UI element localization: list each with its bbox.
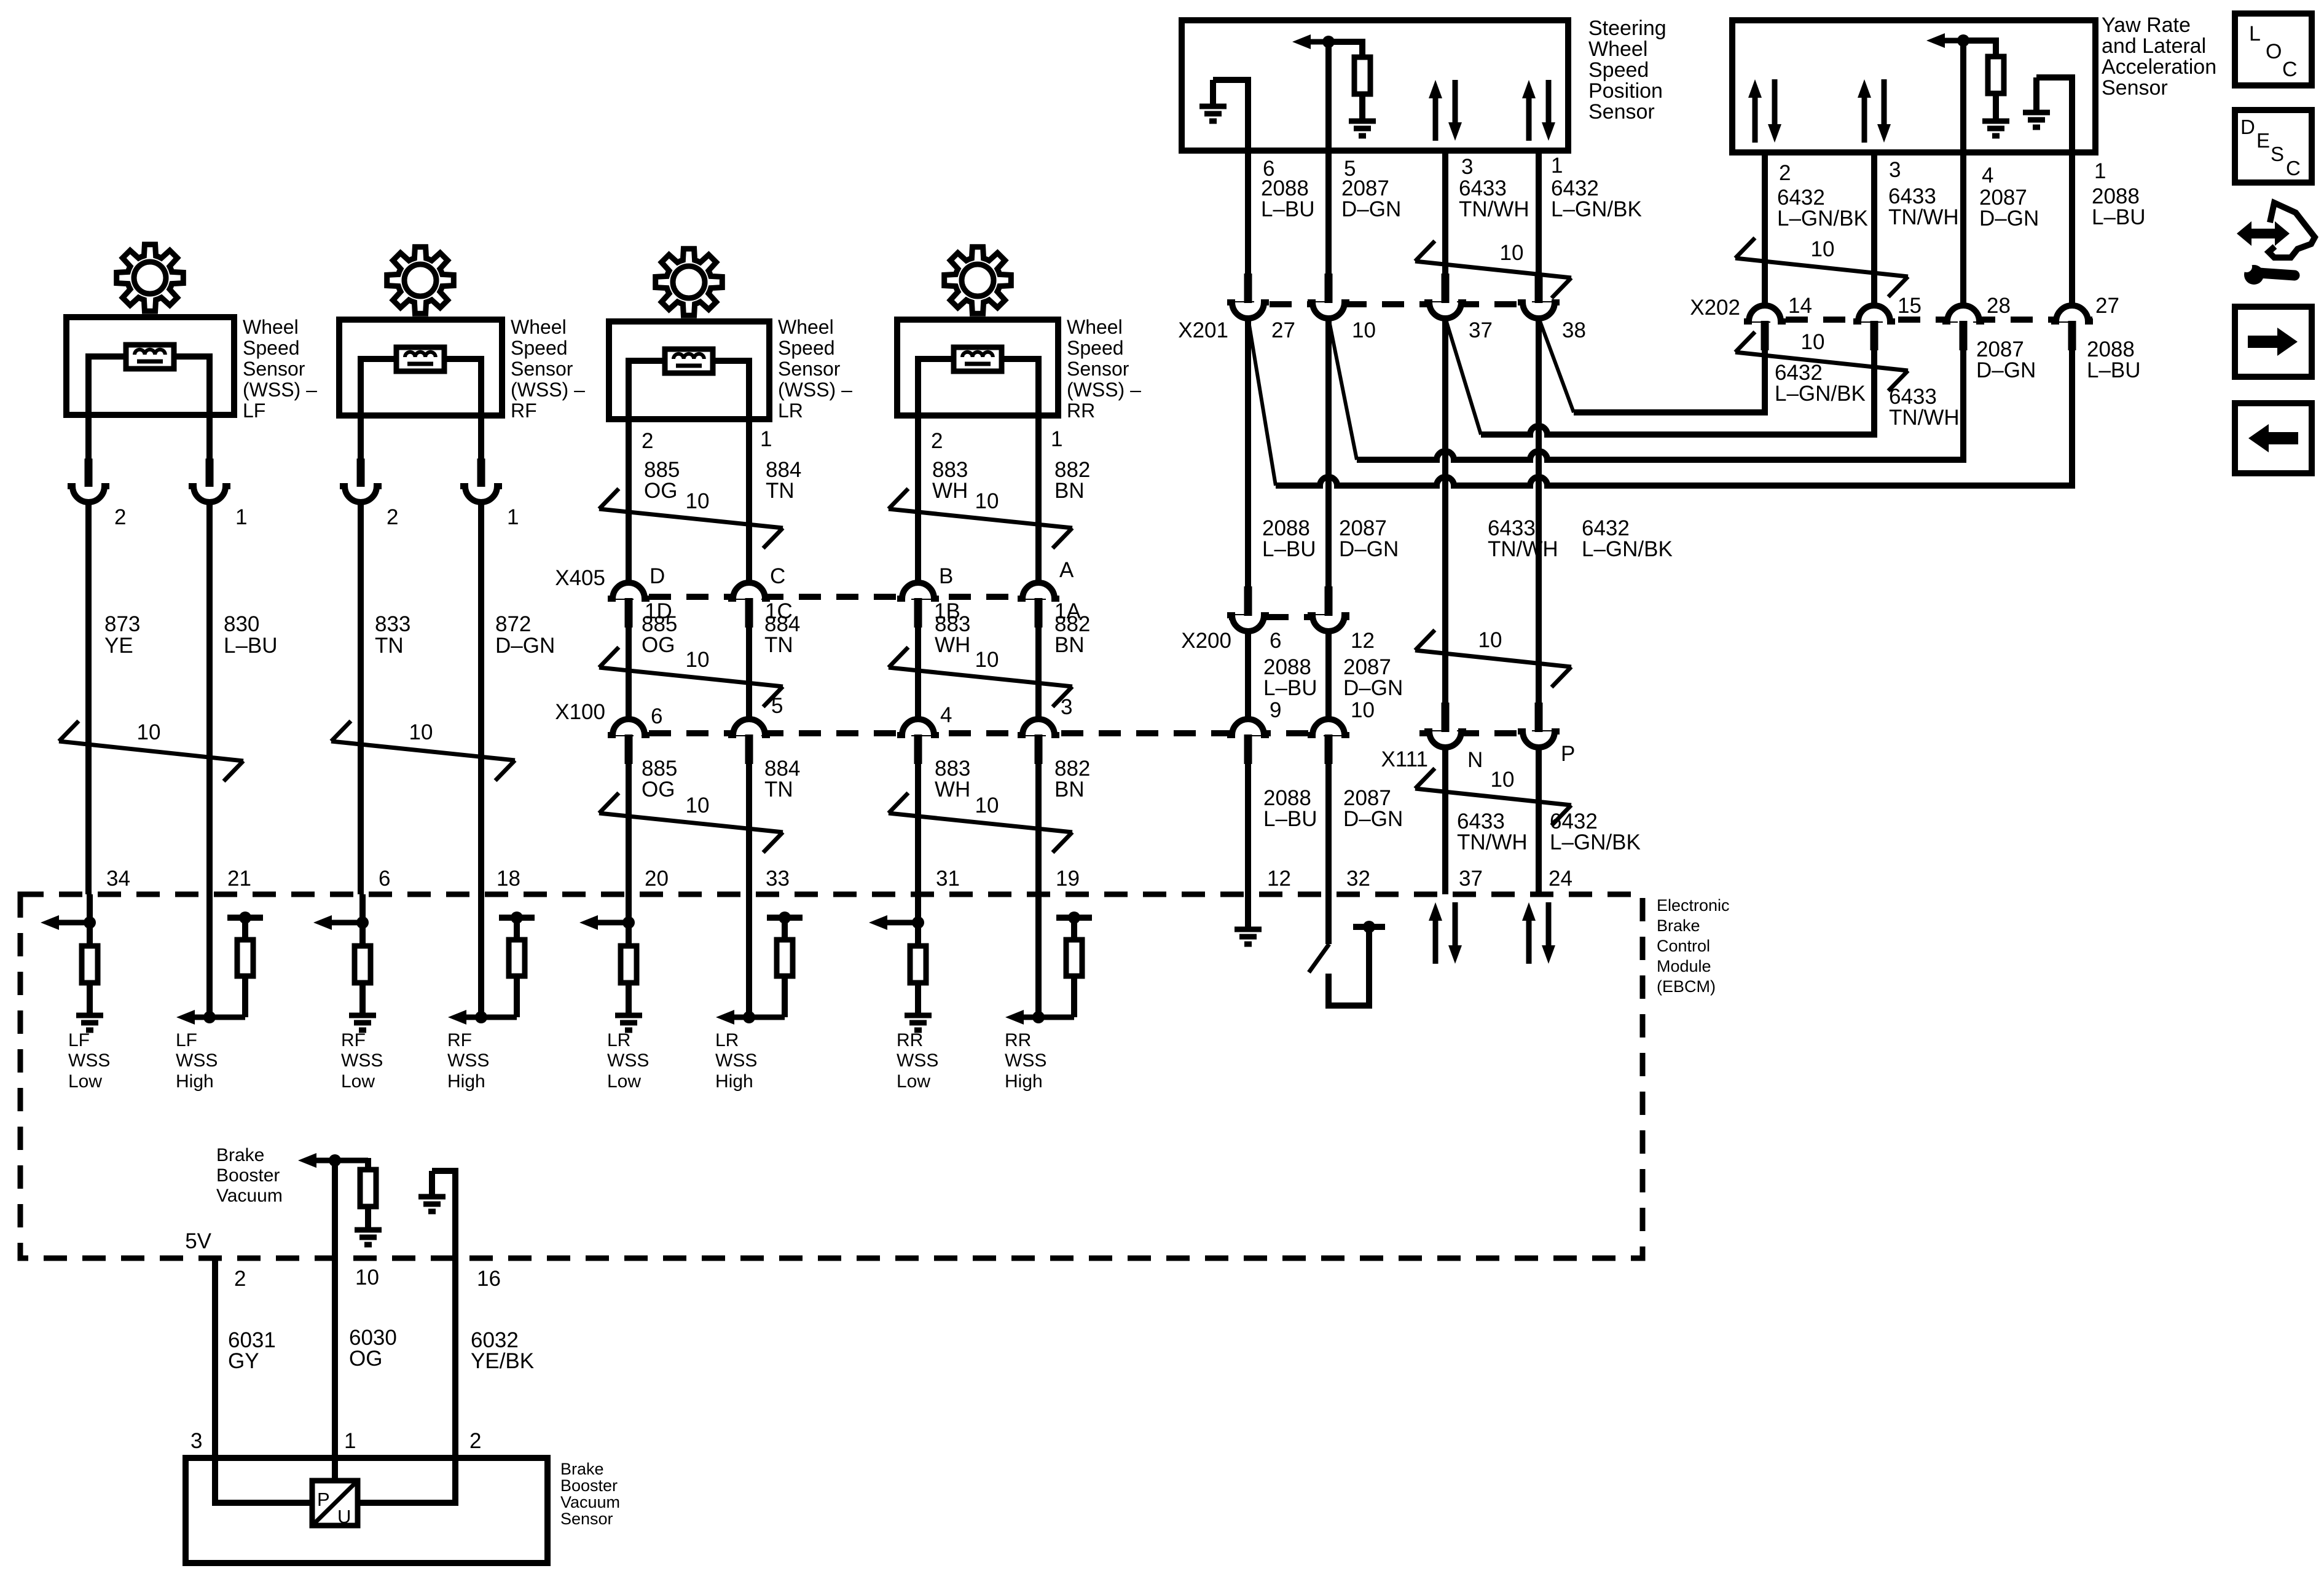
ground at EBCM pin 12: [1245, 894, 1251, 928]
svg-text:TN: TN: [764, 633, 793, 657]
connector X201 cavity 37: [1424, 302, 1466, 318]
svg-text:3: 3: [1889, 158, 1901, 182]
junction dot RF low: [356, 916, 369, 929]
wire 6432 L-GN/BK yaw pin 2 to X202: [1762, 152, 1768, 306]
wire RR low internal: [915, 894, 921, 946]
wheel speed sensor box LF: [66, 317, 234, 415]
svg-text:833: 833: [375, 612, 410, 636]
svg-text:10: 10: [1491, 768, 1515, 792]
svg-text:10: 10: [686, 489, 710, 513]
svg-text:WH: WH: [935, 778, 970, 801]
navigation arrows and wrench icon: [2237, 221, 2290, 246]
svg-text:BN: BN: [1054, 778, 1085, 801]
quadrature arrows B steering sensor: [1526, 96, 1532, 141]
svg-text:6: 6: [1270, 629, 1281, 653]
wire crossover X201-27 to X202-27 diagonal: [1248, 318, 1276, 486]
brake booster vacuum input arrow: [313, 1158, 368, 1164]
wire 885 OG X100 to EBCM pin 20: [626, 764, 632, 894]
LOC legend box: [2235, 14, 2312, 85]
connector row X111 dashed line: [1419, 730, 1564, 736]
wheel speed sensor box LR: [609, 321, 769, 419]
svg-text:BN: BN: [1054, 479, 1085, 503]
internal wiring RF sensor: [361, 359, 396, 415]
junction dot LR low: [622, 916, 635, 929]
svg-text:C: C: [2282, 58, 2298, 81]
twisted pair symbol LR wires above X100: [599, 667, 783, 687]
svg-text:WSS: WSS: [715, 1050, 757, 1071]
wire 2088 L-BU X201 to X200: [1245, 318, 1251, 593]
wire 6030 OG EBCM pin 10 to sensor pin 1: [332, 1258, 338, 1458]
inline connector RF pin 2: [340, 486, 382, 502]
svg-text:Position: Position: [1588, 79, 1663, 103]
svg-text:27: 27: [1271, 318, 1295, 342]
wire 830 L-BU (LF WSS high) to EBCM pin 21: [206, 500, 213, 894]
svg-text:LR: LR: [715, 1030, 739, 1050]
pull-up resistor LR high: [782, 976, 788, 1017]
svg-text:OG: OG: [642, 778, 675, 801]
svg-text:TN/WH: TN/WH: [1457, 830, 1528, 854]
quadrature arrows A steering sensor: [1433, 96, 1439, 141]
svg-text:2: 2: [642, 429, 653, 453]
svg-text:15: 15: [1898, 294, 1922, 318]
svg-text:10: 10: [1801, 330, 1825, 354]
junction dot RR low: [912, 916, 924, 929]
connector X201 cavity 27: [1227, 302, 1269, 318]
connector X202 cavity 14: [1744, 305, 1786, 321]
connector X202 cavity 15: [1853, 305, 1895, 321]
gear icon RR wheel: [944, 247, 1011, 314]
wire 872 D-GN (RF WSS high) to EBCM pin 18: [478, 500, 484, 894]
junction dot RR high: [1032, 1011, 1045, 1023]
svg-text:(WSS) –: (WSS) –: [778, 379, 852, 401]
svg-text:and Lateral: and Lateral: [2102, 34, 2206, 58]
gear icon LF wheel: [117, 245, 184, 312]
svg-text:4: 4: [940, 703, 952, 727]
svg-text:10: 10: [686, 648, 710, 672]
wire 882 BN X405 to X100: [1035, 628, 1042, 721]
resistor inside yaw sensor: [1963, 41, 1996, 57]
svg-text:C: C: [2286, 157, 2301, 179]
internal wiring LF sensor: [88, 356, 126, 415]
svg-text:LF: LF: [243, 400, 265, 422]
svg-text:TN/WH: TN/WH: [1488, 537, 1558, 561]
svg-text:RR: RR: [1067, 400, 1095, 422]
svg-text:Booster: Booster: [560, 1476, 618, 1495]
svg-text:10: 10: [1352, 318, 1376, 342]
svg-text:High: High: [447, 1071, 485, 1092]
WSS element symbol LF: [126, 345, 174, 369]
connector row X201 dashed line: [1232, 301, 1558, 307]
svg-text:X111: X111: [1381, 747, 1428, 771]
svg-text:A: A: [1059, 558, 1074, 582]
svg-text:Brake: Brake: [560, 1460, 604, 1478]
svg-text:RF: RF: [447, 1030, 472, 1050]
svg-text:WSS: WSS: [1005, 1050, 1046, 1071]
svg-text:6: 6: [651, 704, 662, 728]
svg-text:D–GN: D–GN: [1976, 358, 2036, 382]
svg-text:LR: LR: [778, 400, 803, 422]
switch at EBCM pin 32: [1325, 894, 1332, 944]
resistor inside steering sensor: [1329, 42, 1362, 57]
wire 883 WH X405 to X100: [915, 628, 921, 721]
svg-text:12: 12: [1351, 629, 1375, 653]
wire X202-28 drop to run: [1953, 344, 1963, 460]
svg-text:Speed: Speed: [1067, 337, 1124, 359]
svg-text:Sensor: Sensor: [1588, 100, 1655, 124]
svg-text:WSS: WSS: [607, 1050, 649, 1071]
svg-text:10: 10: [1478, 628, 1502, 652]
connector row X100 dashed line: [611, 730, 1359, 736]
svg-text:P: P: [317, 1489, 330, 1510]
internal wiring LR sensor: [629, 361, 665, 419]
LR low input arrow: [594, 920, 629, 926]
brake booster vacuum sensor box: [186, 1458, 548, 1563]
twisted pair symbol below X111: [1415, 789, 1571, 805]
wire X200 6 to 9: [1245, 630, 1251, 721]
svg-text:TN: TN: [375, 634, 404, 658]
svg-text:2: 2: [1779, 161, 1791, 185]
reference rail bar RR high: [1056, 915, 1092, 921]
svg-text:D: D: [2240, 116, 2255, 138]
svg-text:10: 10: [409, 720, 433, 744]
yaw rate and lateral acceleration sensor box: [1732, 20, 2095, 152]
svg-text:5: 5: [771, 694, 783, 718]
svg-text:P: P: [1561, 742, 1575, 766]
svg-text:Low: Low: [897, 1071, 930, 1092]
svg-text:WSS: WSS: [447, 1050, 489, 1071]
junction dot yaw sensor: [1957, 34, 1969, 47]
svg-text:RR: RR: [897, 1030, 923, 1050]
RF low input arrow: [328, 920, 363, 926]
svg-text:L–BU: L–BU: [1262, 537, 1316, 561]
svg-text:2: 2: [931, 429, 943, 453]
twisted pair symbol above X111: [1415, 650, 1571, 667]
svg-text:Brake: Brake: [216, 1145, 264, 1165]
svg-text:Wheel: Wheel: [778, 316, 834, 338]
svg-text:3: 3: [190, 1429, 202, 1453]
RR high input arrow: [1020, 1015, 1074, 1020]
svg-text:2: 2: [234, 1267, 246, 1291]
svg-text:Vacuum: Vacuum: [216, 1186, 283, 1206]
wire 6432 L-GN/BK steering pin 1 to X201: [1536, 151, 1542, 280]
svg-text:D–GN: D–GN: [1979, 207, 2039, 230]
wire 6031 GY EBCM pin 2 to sensor pin 3: [212, 1258, 218, 1458]
svg-text:14: 14: [1788, 294, 1812, 318]
wire run X201-10 to X202-28 horizontal: [1357, 451, 1963, 460]
pull-up resistor RR high: [1071, 976, 1077, 1017]
svg-text:28: 28: [1987, 294, 2011, 318]
wheel speed sensor box RR: [897, 320, 1058, 415]
svg-text:37: 37: [1469, 318, 1493, 342]
svg-text:Speed: Speed: [1588, 58, 1649, 82]
quadrature arrows EBCM pin 37: [1433, 918, 1439, 964]
svg-text:YE: YE: [104, 634, 133, 658]
svg-text:21: 21: [227, 867, 251, 891]
connector X201 cavity 38: [1518, 302, 1560, 318]
resistor RF low: [355, 946, 371, 983]
svg-text:D: D: [650, 564, 665, 588]
svg-text:D–GN: D–GN: [1339, 537, 1399, 561]
svg-text:B: B: [939, 564, 953, 588]
svg-text:Wheel: Wheel: [1067, 316, 1123, 338]
svg-text:10: 10: [975, 489, 999, 513]
svg-text:10: 10: [1500, 241, 1524, 265]
wire LF sensor pin 1 lead: [206, 415, 213, 465]
svg-text:WSS: WSS: [341, 1050, 383, 1071]
svg-text:Acceleration: Acceleration: [2102, 55, 2216, 79]
svg-text:L–GN/BK: L–GN/BK: [1550, 830, 1641, 854]
svg-text:Steering: Steering: [1588, 17, 1666, 40]
reference rail bar LR high: [767, 915, 803, 921]
svg-text:10: 10: [137, 720, 161, 744]
svg-text:Sensor: Sensor: [243, 358, 305, 380]
wire RR high internal: [1035, 894, 1042, 1017]
svg-text:(WSS) –: (WSS) –: [511, 379, 585, 401]
twisted pair symbol LF wires: [59, 741, 243, 761]
svg-text:(EBCM): (EBCM): [1657, 977, 1716, 996]
connector X100 cavity 3: [1018, 719, 1059, 735]
wire 6433 TN/WH X201 to X111: [1442, 318, 1448, 703]
inline connector LF pin 2: [68, 486, 109, 502]
svg-text:Brake: Brake: [1657, 916, 1700, 935]
svg-text:L–BU: L–BU: [1263, 807, 1317, 831]
svg-text:L–BU: L–BU: [2092, 205, 2146, 229]
wire yaw pin 4 internal: [1960, 41, 1966, 152]
wire 6432 L-GN/BK X111 to EBCM pin 24: [1536, 747, 1542, 894]
WSS element symbol LR: [665, 349, 713, 373]
ground RR low: [915, 983, 921, 1015]
pressure transducer symbol P/U: [215, 1458, 312, 1503]
svg-text:1: 1: [1551, 154, 1563, 178]
svg-text:Speed: Speed: [243, 337, 300, 359]
twisted pair symbol LR wires above X405: [599, 509, 783, 528]
wire 883 WH X100 to EBCM pin 31: [915, 764, 921, 894]
svg-text:1: 1: [1051, 427, 1062, 451]
svg-text:WSS: WSS: [68, 1050, 110, 1071]
LF low input arrow: [55, 920, 90, 926]
DESC legend box: [2235, 110, 2312, 183]
svg-text:3: 3: [1061, 695, 1072, 719]
resistor LR low: [621, 946, 637, 983]
svg-text:24: 24: [1549, 867, 1572, 891]
svg-text:872: 872: [495, 612, 531, 636]
svg-text:TN: TN: [764, 778, 793, 801]
svg-text:X200: X200: [1181, 629, 1231, 653]
svg-text:WH: WH: [935, 633, 970, 657]
svg-text:20: 20: [645, 867, 669, 891]
svg-text:Vacuum: Vacuum: [560, 1493, 620, 1511]
connector X202 cavity 28: [1942, 305, 1984, 321]
wire 5V reference inside EBCM: [332, 1160, 338, 1258]
svg-text:X201: X201: [1178, 318, 1228, 342]
wire RF low internal: [359, 894, 366, 946]
wire 2087 D-GN yaw pin 4 to X202: [1960, 152, 1966, 306]
svg-text:16: 16: [477, 1267, 501, 1291]
svg-text:TN/WH: TN/WH: [1888, 205, 1959, 229]
svg-text:High: High: [176, 1071, 214, 1092]
svg-text:L–BU: L–BU: [224, 634, 278, 658]
svg-text:O: O: [2266, 40, 2282, 63]
wire crossover X201-37 to X202-15 diagonal: [1445, 318, 1481, 435]
connector X201 cavity 10: [1308, 302, 1349, 318]
svg-text:X100: X100: [555, 700, 605, 724]
wire LF high internal: [206, 894, 213, 1017]
quadrature arrows B yaw sensor: [1862, 95, 1867, 143]
svg-text:Low: Low: [607, 1071, 641, 1092]
wheel speed sensor box RF: [339, 320, 502, 415]
resistor LF low: [82, 946, 98, 983]
svg-text:10: 10: [1351, 698, 1375, 722]
wire 833 TN (RF WSS low) to EBCM pin 6: [358, 500, 364, 894]
wire 882 BN RR pin 1 to X405: [1035, 415, 1042, 585]
RF high input arrow: [463, 1015, 517, 1020]
connector X200 cavity 12: [1308, 615, 1349, 631]
wire RF high internal: [478, 894, 484, 1017]
resistor RR low: [910, 946, 926, 983]
connector row X202 dashed line: [1748, 317, 2092, 323]
wire 2087 D-GN X201 to X200: [1325, 318, 1332, 593]
connector X200 cavity 10: [1308, 719, 1349, 735]
inline connector RF pin 1: [460, 486, 502, 502]
svg-text:1: 1: [507, 505, 519, 529]
svg-text:TN: TN: [766, 479, 795, 503]
reference rail bar RF high: [499, 915, 535, 921]
wire run X201-37 to X202-15 horizontal: [1481, 426, 1874, 435]
twisted pair symbol RF wires: [331, 741, 515, 760]
wire 6433 TN/WH X111 to EBCM pin 37: [1442, 747, 1448, 894]
wire steering pin 5 internal: [1325, 42, 1332, 151]
svg-text:L–GN/BK: L–GN/BK: [1582, 537, 1673, 561]
wire 6032 YE/BK EBCM pin 16 to sensor pin 2: [452, 1258, 458, 1458]
connector X111 cavity N: [1424, 731, 1466, 747]
connector X100 cavity 5: [728, 719, 770, 735]
svg-text:Sensor: Sensor: [778, 358, 841, 380]
svg-text:33: 33: [766, 867, 790, 891]
quadrature arrows A yaw sensor: [1753, 95, 1758, 143]
svg-text:Control: Control: [1657, 937, 1710, 955]
svg-text:1: 1: [2094, 159, 2106, 183]
svg-text:L: L: [2249, 22, 2261, 45]
wire crossover X201-10 to X202-28 diagonal: [1329, 318, 1357, 460]
svg-text:Sensor: Sensor: [511, 358, 573, 380]
ground below resistor brake booster vacuum: [365, 1207, 371, 1230]
connector X100 cavity 4: [897, 719, 939, 735]
ground LF low: [87, 983, 93, 1015]
svg-text:Electronic: Electronic: [1657, 896, 1730, 915]
svg-text:37: 37: [1459, 867, 1483, 891]
quadrature arrows EBCM pin 24: [1526, 918, 1532, 964]
wire 873 YE (LF WSS low) to EBCM pin 34: [85, 500, 92, 894]
junction dot LF high: [203, 1011, 216, 1023]
svg-text:9: 9: [1270, 698, 1281, 722]
wire LR low internal: [626, 894, 632, 946]
svg-text:Sensor: Sensor: [1067, 358, 1129, 380]
svg-text:X202: X202: [1690, 296, 1740, 320]
svg-text:2: 2: [469, 1429, 481, 1453]
connector X111 cavity P: [1518, 731, 1560, 747]
ground for sensor return inside EBCM: [429, 1171, 435, 1197]
WSS element symbol RR: [954, 347, 1002, 371]
pull-up resistor brake booster vacuum: [365, 1158, 371, 1170]
wire 2088 L-BU yaw pin 1 to X202: [2069, 152, 2075, 306]
reference rail bar LF high: [227, 915, 263, 921]
svg-text:Wheel: Wheel: [511, 316, 567, 338]
svg-text:OG: OG: [349, 1347, 382, 1371]
wire run X201-27 to X202-27 horizontal: [1276, 477, 2072, 486]
twisted pair symbol RR wires above X100: [889, 667, 1072, 687]
twisted pair symbol yaw wires above X202: [1735, 258, 1908, 277]
svg-text:L–GN/BK: L–GN/BK: [1775, 382, 1866, 406]
svg-text:Wheel: Wheel: [243, 316, 299, 338]
twisted pair symbol LR wires below X100: [599, 813, 783, 832]
svg-text:Booster: Booster: [216, 1165, 280, 1186]
connector X405 cavity C: [728, 583, 770, 599]
twisted pair symbol steering signal wires: [1415, 261, 1571, 278]
twisted pair symbol RR wires below X100: [889, 813, 1072, 832]
wire X202-27 drop to run: [2062, 344, 2072, 486]
connector X405 cavity D: [608, 583, 650, 599]
svg-text:(WSS) –: (WSS) –: [243, 379, 317, 401]
wire X202-15 drop to run: [1864, 344, 1874, 435]
svg-text:1: 1: [235, 505, 247, 529]
wire X202-14 drop to run: [1755, 344, 1765, 412]
wire LF low internal: [87, 894, 93, 946]
svg-text:L–BU: L–BU: [1263, 676, 1317, 700]
wire 882 BN X100 to EBCM pin 19: [1035, 764, 1042, 894]
svg-text:BN: BN: [1054, 633, 1085, 657]
connector X200 upper dashed line: [1229, 614, 1349, 620]
svg-text:N: N: [1467, 748, 1483, 772]
svg-text:(WSS) –: (WSS) –: [1067, 379, 1141, 401]
internal wiring RR sensor: [918, 359, 954, 415]
svg-text:Module: Module: [1657, 957, 1711, 975]
twisted pair symbol RR wires above X405: [889, 509, 1072, 528]
wire 2088 L-BU steering pin 6 to X201: [1245, 151, 1251, 280]
ground symbol right side yaw sensor: [2033, 77, 2039, 112]
svg-text:D–GN: D–GN: [1341, 197, 1401, 221]
svg-text:TN/WH: TN/WH: [1889, 406, 1960, 430]
wire 2087 D-GN X200 to EBCM pin 32: [1325, 764, 1332, 894]
svg-text:3: 3: [1461, 155, 1473, 179]
svg-text:D–GN: D–GN: [1343, 807, 1403, 831]
svg-text:WSS: WSS: [176, 1050, 218, 1071]
svg-text:E: E: [2256, 129, 2270, 152]
junction dot LF low: [84, 916, 96, 929]
svg-text:10: 10: [355, 1266, 379, 1290]
svg-text:10: 10: [975, 648, 999, 672]
svg-text:D–GN: D–GN: [1343, 676, 1403, 700]
LF high input arrow: [191, 1015, 245, 1020]
gear icon LR wheel: [656, 249, 723, 316]
svg-text:27: 27: [2095, 294, 2119, 318]
wire X200 12 to 10: [1325, 630, 1332, 721]
junction dot LR high: [743, 1011, 755, 1023]
wire 6433 TN/WH steering pin 3 to X201: [1442, 151, 1448, 280]
svg-text:LF: LF: [176, 1030, 197, 1050]
wire RF sensor pin 2 lead: [358, 415, 364, 465]
svg-text:L–BU: L–BU: [2087, 358, 2141, 382]
svg-text:S: S: [2271, 143, 2284, 165]
signal arrow inside steering sensor: [1307, 39, 1362, 45]
svg-text:Sensor: Sensor: [560, 1510, 613, 1528]
svg-text:31: 31: [936, 867, 960, 891]
svg-text:1: 1: [344, 1429, 356, 1453]
svg-text:10: 10: [1811, 237, 1835, 261]
svg-text:L–BU: L–BU: [1261, 197, 1315, 221]
svg-text:OG: OG: [644, 479, 677, 503]
svg-text:LR: LR: [607, 1030, 630, 1050]
svg-text:High: High: [715, 1071, 753, 1092]
